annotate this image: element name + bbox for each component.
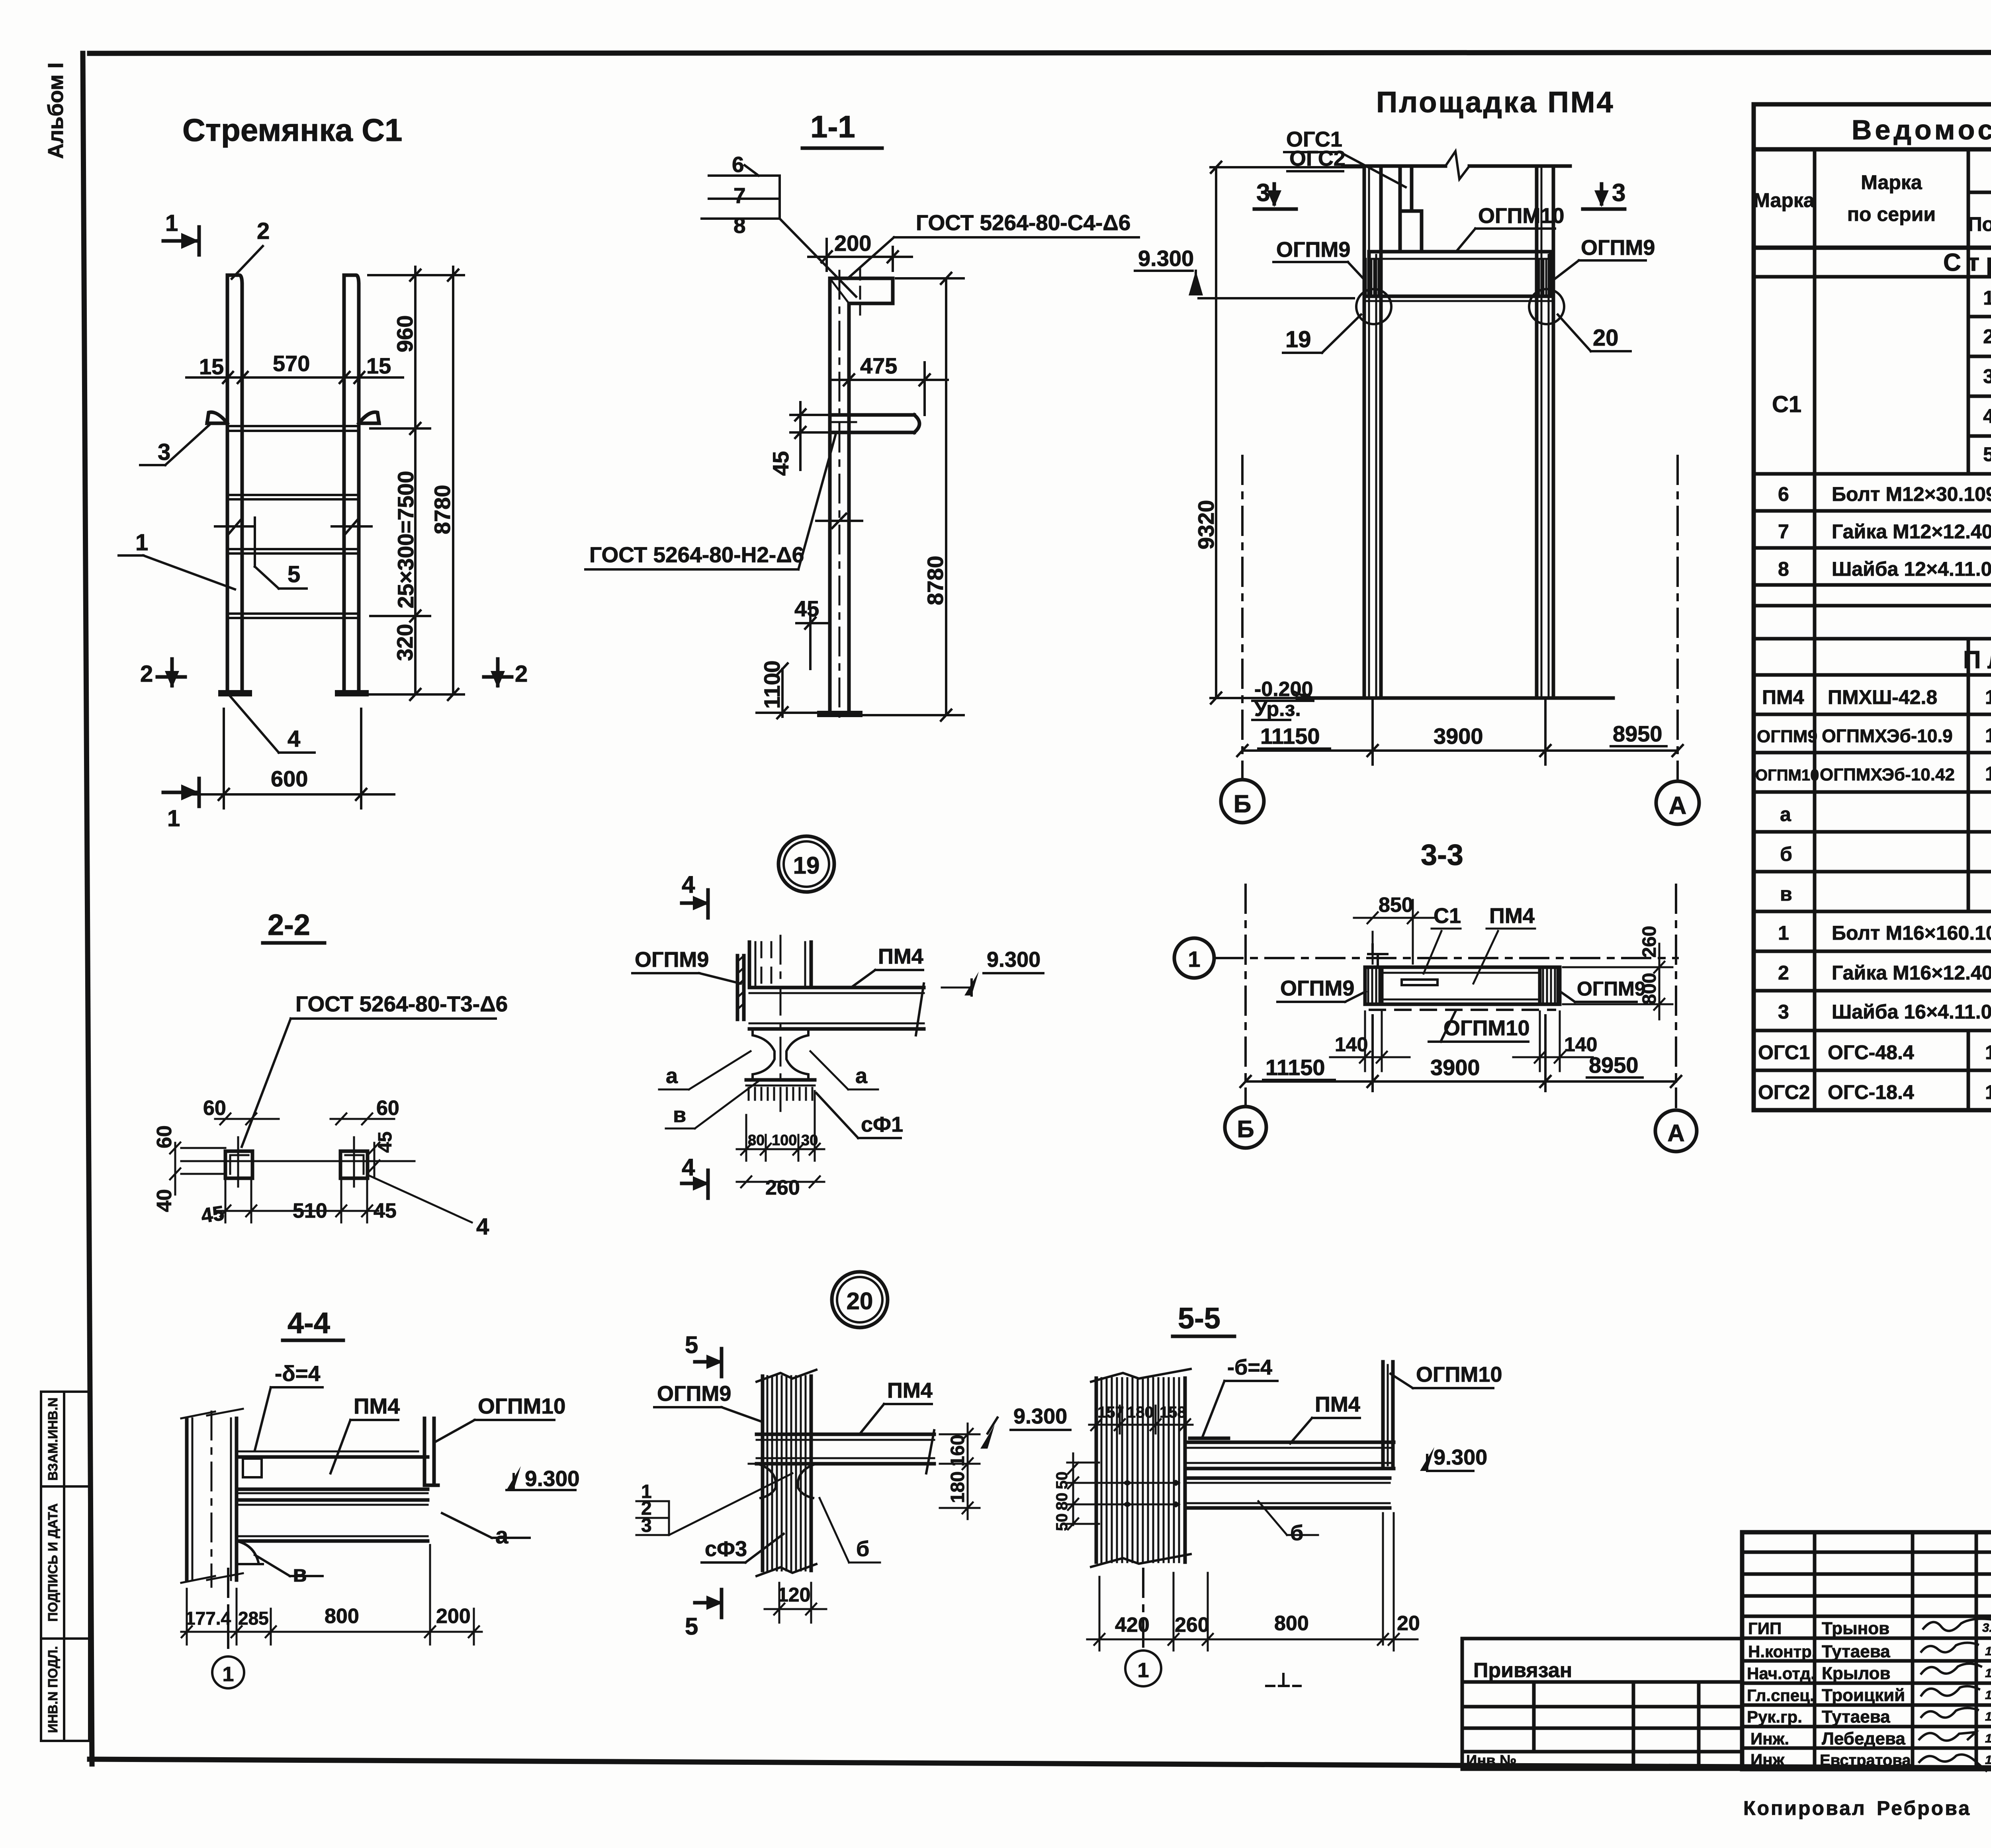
svg-text:1.450.3-3.1: 1.450.3-3.1 [1985,724,1991,747]
svg-text:Площадка ПМ4: Площадка ПМ4 [1376,86,1615,119]
svg-text:1.450.3-3.1: 1.450.3-3.1 [1985,686,1991,708]
svg-text:а: а [666,1064,678,1088]
svg-text:Б: Б [1234,790,1252,818]
svg-text:8950: 8950 [1613,721,1662,746]
svg-text:ОГС-48.4: ОГС-48.4 [1828,1041,1914,1064]
svg-text:2: 2 [515,661,528,687]
svg-text:Тутаева: Тутаева [1822,1642,1890,1661]
svg-text:А: А [1667,1120,1684,1146]
svg-text:Инж: Инж [1750,1750,1785,1769]
svg-text:3: 3 [1778,1001,1789,1023]
svg-text:1: 1 [165,210,178,236]
svg-text:ПМ4: ПМ4 [354,1394,400,1418]
svg-text:3: 3 [1256,179,1270,207]
svg-text:ОГПМ9: ОГПМ9 [1581,236,1655,260]
svg-text:2: 2 [140,661,153,687]
svg-text:8: 8 [733,213,746,238]
svg-text:ОГПМ9: ОГПМ9 [635,948,709,972]
svg-text:3-3: 3-3 [1421,838,1463,871]
svg-text:ОГПМ9: ОГПМ9 [1280,976,1354,1000]
svg-text:а: а [495,1523,509,1549]
svg-text:5: 5 [1983,443,1991,465]
svg-text:1: 1 [1138,1659,1149,1682]
svg-text:по серии: по серии [1847,203,1936,225]
svg-text:Гайка М16×12.40Х.016: Гайка М16×12.40Х.016 [1832,962,1991,984]
svg-text:ГОСТ 5264-80-Н2-Δ6: ГОСТ 5264-80-Н2-Δ6 [589,542,804,567]
svg-text:ВЗАМ.ИНВ.N: ВЗАМ.ИНВ.N [45,1398,60,1481]
svg-text:1100: 1100 [759,661,784,709]
svg-text:60: 60 [376,1097,399,1120]
svg-text:19: 19 [793,852,820,879]
svg-text:120: 120 [777,1584,810,1606]
svg-text:сФ1: сФ1 [861,1113,903,1136]
svg-text:800: 800 [1639,973,1660,1005]
svg-text:5-5: 5-5 [1178,1302,1220,1335]
svg-text:5: 5 [685,1332,698,1358]
svg-text:800: 800 [1274,1612,1309,1635]
svg-text:1-1: 1-1 [810,109,855,144]
svg-text:260: 260 [1639,926,1660,958]
svg-text:6: 6 [732,152,744,177]
svg-text:Стремянка С1: Стремянка С1 [182,112,402,148]
svg-text:4: 4 [288,726,300,752]
svg-text:180: 180 [1127,1404,1154,1421]
svg-text:-б=4: -б=4 [1227,1355,1272,1379]
svg-text:17.10: 17.10 [1985,1709,1991,1723]
svg-text:ПМ4: ПМ4 [878,945,923,968]
svg-text:Альбом I: Альбом I [44,63,68,159]
svg-text:ПОДПИСЬ И ДАТА: ПОДПИСЬ И ДАТА [45,1503,60,1621]
svg-text:в: в [1780,883,1792,905]
svg-text:Инж.: Инж. [1750,1729,1789,1748]
svg-text:-δ=4: -δ=4 [275,1361,321,1386]
svg-text:17.10: 17.10 [1985,1731,1991,1745]
svg-text:ОГПМ10: ОГПМ10 [1443,1016,1529,1040]
svg-text:180: 180 [947,1471,968,1503]
svg-text:1: 1 [1983,287,1991,309]
svg-text:Стремянка: Стремянка [1943,249,1991,276]
svg-text:Поз.: Поз. [1968,213,1991,235]
svg-text:160: 160 [947,1435,968,1467]
svg-text:Лебедева: Лебедева [1822,1729,1905,1748]
svg-text:сФ3: сФ3 [705,1537,747,1561]
svg-text:11150: 11150 [1260,724,1320,749]
svg-text:в: в [293,1561,307,1587]
svg-text:Нач.отд.: Нач.отд. [1747,1664,1815,1683]
svg-text:17.10: 17.10 [1985,1753,1991,1767]
svg-text:ГИП: ГИП [1748,1619,1782,1638]
svg-text:ОГС2: ОГС2 [1758,1081,1810,1103]
svg-text:25×300=7500: 25×300=7500 [393,471,418,608]
svg-text:а: а [1780,803,1792,825]
svg-text:30: 30 [801,1132,818,1149]
svg-text:Площадка: Площадка [1963,646,1991,674]
svg-text:ОГС2: ОГС2 [1289,147,1346,170]
svg-text:285: 285 [238,1608,269,1629]
svg-text:2-2: 2-2 [268,908,310,941]
svg-text:15: 15 [366,353,391,378]
svg-text:2: 2 [1778,962,1789,984]
svg-text:8: 8 [1778,558,1789,580]
svg-text:17.10: 17.10 [1985,1688,1991,1702]
svg-text:7: 7 [1778,520,1789,543]
svg-text:17.10: 17.10 [1985,1644,1991,1658]
svg-text:ОГПМ10: ОГПМ10 [1478,204,1564,228]
svg-text:ПМ4: ПМ4 [1762,686,1804,708]
svg-text:45: 45 [374,1199,397,1222]
svg-text:5: 5 [288,561,300,587]
svg-text:в: в [673,1103,686,1127]
svg-text:Гл.спец.: Гл.спец. [1747,1686,1815,1705]
svg-text:Крылов: Крылов [1822,1664,1891,1683]
svg-text:ОГПМХЭб-10.42: ОГПМХЭб-10.42 [1820,765,1955,784]
svg-text:Н.контр.: Н.контр. [1748,1642,1816,1661]
svg-text:260: 260 [1175,1613,1209,1637]
svg-text:а: а [855,1064,868,1088]
svg-text:60: 60 [153,1125,176,1148]
svg-text:45: 45 [199,1202,225,1228]
svg-text:Марка: Марка [1753,189,1815,211]
svg-text:45: 45 [375,1132,396,1153]
svg-text:3: 3 [641,1515,652,1536]
svg-text:260: 260 [765,1176,800,1199]
svg-text:4: 4 [476,1214,489,1240]
svg-text:17.10: 17.10 [1985,1666,1991,1680]
svg-text:б: б [1780,843,1792,865]
svg-text:Инв.№: Инв.№ [1466,1752,1517,1769]
svg-text:Евстратова: Евстратова [1820,1752,1911,1769]
svg-text:140: 140 [1335,1033,1368,1056]
svg-text:3.11.86: 3.11.86 [1982,1621,1991,1635]
svg-text:8780: 8780 [430,485,455,534]
svg-text:С1: С1 [1772,391,1801,417]
svg-text:9.300: 9.300 [1013,1404,1067,1428]
svg-text:5: 5 [685,1613,698,1640]
svg-text:1: 1 [223,1663,234,1686]
svg-text:600: 600 [271,766,308,791]
svg-text:3900: 3900 [1434,724,1483,749]
svg-text:ПМХШ-42.8: ПМХШ-42.8 [1828,686,1937,708]
svg-text:510: 510 [293,1199,327,1222]
svg-text:ГОСТ 5264-80-Т3-Δ6: ГОСТ 5264-80-Т3-Δ6 [295,991,508,1016]
svg-text:ОГПМХЭб-10.9: ОГПМХЭб-10.9 [1822,726,1953,746]
svg-text:7: 7 [733,183,746,208]
svg-text:800: 800 [325,1605,359,1628]
svg-text:ПМ4: ПМ4 [887,1379,933,1402]
svg-text:157: 157 [1097,1404,1124,1421]
svg-text:1: 1 [167,806,180,831]
svg-text:45: 45 [794,596,819,621]
svg-text:Рук.гр.: Рук.гр. [1747,1707,1802,1726]
svg-text:ОГС-18.4: ОГС-18.4 [1828,1081,1914,1103]
svg-text:б: б [1290,1521,1303,1545]
svg-text:3: 3 [158,439,170,465]
svg-text:80: 80 [1053,1493,1071,1511]
svg-text:200: 200 [436,1605,471,1628]
svg-text:ОГПМ10: ОГПМ10 [1416,1363,1502,1386]
svg-text:60: 60 [203,1097,226,1120]
svg-text:11150: 11150 [1265,1055,1325,1080]
svg-text:850: 850 [1379,894,1413,917]
svg-text:20: 20 [847,1288,873,1314]
svg-text:Шайба 12×4.11.016: Шайба 12×4.11.016 [1832,558,1991,580]
svg-text:15: 15 [199,354,224,379]
svg-text:Ур.з.: Ур.з. [1254,698,1301,721]
svg-text:50: 50 [1053,1472,1071,1490]
svg-text:19: 19 [1285,327,1311,352]
svg-text:8950: 8950 [1589,1052,1639,1078]
svg-text:ОГПМ9: ОГПМ9 [1276,238,1350,262]
svg-text:20: 20 [1397,1612,1420,1635]
svg-text:3: 3 [1612,179,1625,207]
svg-text:Гайка М12×12.40Х.016: Гайка М12×12.40Х.016 [1832,520,1991,543]
svg-text:Реброва: Реброва [1877,1797,1971,1819]
svg-text:3900: 3900 [1430,1055,1480,1080]
svg-text:158: 158 [1160,1404,1186,1421]
svg-text:ОГПМ9: ОГПМ9 [1577,978,1646,1000]
svg-text:Шайба 16×4.11.016: Шайба 16×4.11.016 [1832,1001,1991,1023]
svg-text:ОГПМ10: ОГПМ10 [478,1394,565,1418]
svg-text:8780: 8780 [923,555,948,605]
svg-text:Болт М12×30.109.40Х.016: Болт М12×30.109.40Х.016 [1832,483,1991,505]
svg-text:1.450.3-3.1: 1.450.3-3.1 [1985,1041,1991,1064]
svg-text:Троицкий: Троицкий [1822,1686,1905,1705]
svg-text:4: 4 [1983,405,1991,427]
svg-text:320: 320 [392,624,417,661]
svg-text:Тутаева: Тутаева [1822,1707,1890,1727]
svg-text:Копировал: Копировал [1743,1797,1866,1819]
svg-text:1: 1 [1188,946,1200,972]
svg-text:Трынов: Трынов [1822,1619,1889,1638]
svg-text:200: 200 [834,231,871,256]
svg-text:100: 100 [772,1132,797,1149]
svg-text:2: 2 [257,218,270,244]
svg-text:9.300: 9.300 [1138,246,1194,271]
svg-text:177.4: 177.4 [185,1608,231,1629]
svg-text:ПМ4: ПМ4 [1315,1392,1360,1416]
svg-text:ОГПМ10: ОГПМ10 [1755,767,1819,784]
svg-text:ОГПМ9: ОГПМ9 [1757,727,1817,746]
svg-text:50: 50 [1053,1514,1071,1531]
svg-text:4-4: 4-4 [288,1306,330,1340]
svg-text:ИНВ.N ПОДЛ.: ИНВ.N ПОДЛ. [45,1646,60,1733]
svg-text:960: 960 [392,315,417,352]
svg-text:9.300: 9.300 [525,1466,580,1491]
svg-text:9320: 9320 [1193,500,1218,550]
svg-text:ГОСТ 5264-80-С4-Δ6: ГОСТ 5264-80-С4-Δ6 [916,210,1130,235]
svg-text:20: 20 [1593,325,1619,351]
svg-text:45: 45 [768,451,793,476]
svg-text:А: А [1669,792,1687,819]
svg-text:9.300: 9.300 [1434,1445,1487,1469]
svg-text:1: 1 [135,530,148,555]
svg-text:Привязан: Привязан [1473,1659,1572,1682]
svg-text:Ведомость: Ведомость [1852,114,1991,145]
svg-text:570: 570 [273,351,310,376]
svg-text:Б: Б [1237,1116,1254,1142]
svg-text:б: б [856,1537,869,1561]
svg-text:1: 1 [1778,922,1789,944]
svg-text:475: 475 [860,353,897,378]
svg-text:6: 6 [1778,483,1789,505]
svg-text:С1: С1 [1434,904,1461,928]
svg-text:4: 4 [682,871,695,898]
svg-text:Марка: Марка [1861,171,1923,194]
svg-text:1.450.3-3.1: 1.450.3-3.1 [1985,1081,1991,1103]
svg-text:ОГПМ9: ОГПМ9 [657,1382,731,1406]
svg-text:ПМ4: ПМ4 [1489,904,1535,928]
svg-text:Болт М16×160.109.40Х.016: Болт М16×160.109.40Х.016 [1832,922,1991,944]
svg-text:40: 40 [153,1189,176,1212]
svg-text:9.300: 9.300 [987,948,1040,972]
svg-text:ОГС1: ОГС1 [1758,1041,1810,1064]
svg-text:80: 80 [748,1132,765,1149]
svg-text:3: 3 [1983,365,1991,387]
svg-text:1.450.3-3.1: 1.450.3-3.1 [1985,763,1991,785]
svg-text:2: 2 [1983,325,1991,348]
